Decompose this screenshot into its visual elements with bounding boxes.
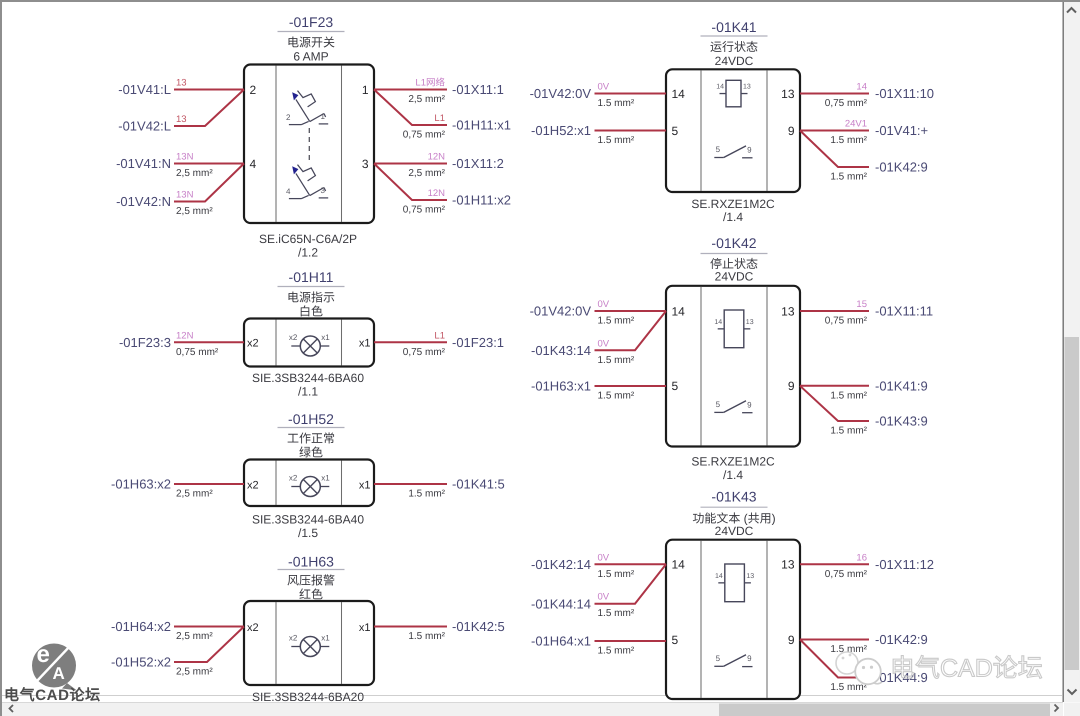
svg-text:1.5 mm²: 1.5 mm² [598, 355, 635, 366]
svg-text:/1.4: /1.4 [723, 210, 743, 224]
svg-text:-01V42:N: -01V42:N [116, 194, 171, 209]
svg-text:5: 5 [672, 124, 679, 138]
svg-text:-01K42:14: -01K42:14 [531, 557, 591, 572]
svg-text:-01H11: -01H11 [289, 269, 334, 285]
svg-text:绿色: 绿色 [299, 446, 323, 460]
svg-text:-01V41:N: -01V41:N [116, 156, 171, 171]
svg-text:13: 13 [176, 78, 187, 89]
svg-text:/1.4: /1.4 [723, 468, 743, 482]
svg-text:L1: L1 [434, 330, 445, 341]
svg-text:2,5 mm²: 2,5 mm² [176, 206, 213, 217]
svg-text:-01F23:1: -01F23:1 [452, 335, 504, 350]
svg-text:2,5 mm²: 2,5 mm² [176, 489, 213, 500]
svg-text:-01K43:14: -01K43:14 [531, 343, 591, 358]
svg-text:SE.RXZE1M2C: SE.RXZE1M2C [691, 455, 775, 469]
svg-text:1: 1 [321, 112, 326, 121]
svg-text:0V: 0V [598, 299, 610, 310]
svg-text:2,5 mm²: 2,5 mm² [408, 94, 445, 105]
svg-text:e: e [37, 641, 50, 668]
svg-text:L1: L1 [434, 113, 445, 124]
svg-text:x1: x1 [321, 333, 330, 342]
svg-text:-01H63:x2: -01H63:x2 [111, 477, 171, 492]
svg-text:-01V42:L: -01V42:L [118, 119, 171, 134]
svg-text:x2: x2 [289, 634, 298, 643]
svg-text:1.5 mm²: 1.5 mm² [830, 426, 867, 437]
svg-text:-01K43:9: -01K43:9 [875, 414, 928, 429]
svg-text:电气CAD论坛: 电气CAD论坛 [890, 655, 1043, 683]
svg-text:白色: 白色 [299, 305, 323, 319]
svg-text:-01F23:3: -01F23:3 [119, 335, 171, 350]
svg-text:0V: 0V [598, 338, 610, 349]
svg-text:6 AMP: 6 AMP [293, 50, 328, 64]
svg-text:工作正常: 工作正常 [287, 432, 335, 446]
svg-text:1.5 mm²: 1.5 mm² [598, 608, 635, 619]
svg-text:-01K42:9: -01K42:9 [875, 160, 928, 175]
svg-text:-01K43: -01K43 [711, 489, 756, 505]
svg-text:-01K41:9: -01K41:9 [875, 378, 928, 393]
svg-text:2,5 mm²: 2,5 mm² [176, 168, 213, 179]
svg-text:/1.5: /1.5 [298, 526, 318, 540]
svg-text:-01H52:x2: -01H52:x2 [111, 655, 171, 670]
svg-text:3: 3 [362, 157, 369, 171]
svg-text:0V: 0V [598, 552, 610, 563]
svg-text:15: 15 [856, 299, 867, 310]
svg-text:2,5 mm²: 2,5 mm² [176, 667, 213, 678]
svg-text:-01K42: -01K42 [711, 235, 756, 251]
svg-text:1.5 mm²: 1.5 mm² [598, 569, 635, 580]
svg-text:-01H64:x2: -01H64:x2 [111, 619, 171, 634]
svg-text:-01X11:12: -01X11:12 [875, 557, 934, 572]
svg-text:0,75 mm²: 0,75 mm² [403, 205, 446, 216]
svg-text:24V1: 24V1 [845, 119, 867, 130]
svg-text:13: 13 [746, 573, 754, 580]
svg-text:-01F23: -01F23 [289, 14, 334, 30]
svg-text:/1.1: /1.1 [298, 385, 318, 399]
svg-text:-01V42:0V: -01V42:0V [530, 304, 592, 319]
svg-text:x1: x1 [359, 338, 371, 350]
svg-text:-01V42:0V: -01V42:0V [530, 86, 592, 101]
svg-text:-01H11:x2: -01H11:x2 [452, 193, 511, 208]
svg-text:x2: x2 [289, 333, 298, 342]
svg-text:9: 9 [747, 400, 752, 409]
svg-text:5: 5 [672, 633, 679, 647]
svg-text:3: 3 [321, 186, 326, 195]
svg-text:13: 13 [781, 304, 795, 318]
svg-text:12N: 12N [428, 152, 446, 163]
svg-text:SE.RXZE1M2C: SE.RXZE1M2C [691, 197, 775, 211]
svg-text:红色: 红色 [299, 588, 323, 602]
svg-text:1.5 mm²: 1.5 mm² [408, 631, 445, 642]
svg-text:1: 1 [362, 83, 369, 97]
svg-text:-01X11:1: -01X11:1 [452, 82, 504, 97]
svg-text:4: 4 [250, 157, 257, 171]
svg-text:14: 14 [716, 84, 724, 91]
svg-text:14: 14 [714, 319, 722, 326]
svg-text:x2: x2 [247, 479, 259, 491]
svg-text:1.5 mm²: 1.5 mm² [598, 135, 635, 146]
svg-text:12N: 12N [428, 188, 446, 199]
svg-text:9: 9 [788, 379, 795, 393]
svg-text:SIE.3SB3244-6BA60: SIE.3SB3244-6BA60 [252, 371, 364, 385]
svg-text:0,75 mm²: 0,75 mm² [825, 569, 868, 580]
svg-text:x2: x2 [247, 338, 259, 350]
svg-text:2: 2 [250, 83, 257, 97]
svg-text:运行状态: 运行状态 [710, 40, 758, 54]
svg-text:5: 5 [716, 654, 721, 663]
svg-text:SIE.3SB3244-6BA40: SIE.3SB3244-6BA40 [252, 513, 364, 527]
svg-text:1.5 mm²: 1.5 mm² [598, 646, 635, 657]
svg-text:x1: x1 [359, 622, 371, 634]
svg-text:-01K42:9: -01K42:9 [875, 632, 928, 647]
svg-text:-01K41: -01K41 [711, 19, 756, 35]
svg-text:-01V41:L: -01V41:L [118, 82, 171, 97]
svg-text:-01V41:+: -01V41:+ [875, 123, 928, 138]
svg-text:风压报警: 风压报警 [287, 574, 335, 588]
svg-text:1.5 mm²: 1.5 mm² [830, 172, 867, 183]
svg-text:电源指示: 电源指示 [287, 291, 335, 305]
svg-text:9: 9 [788, 124, 795, 138]
svg-text:x1: x1 [321, 634, 330, 643]
svg-text:13: 13 [781, 558, 795, 572]
svg-text:0,75 mm²: 0,75 mm² [403, 130, 446, 141]
svg-text:SE.iC65N-C6A/2P: SE.iC65N-C6A/2P [259, 232, 357, 246]
svg-text:16: 16 [856, 552, 867, 563]
svg-text:-01H52:x1: -01H52:x1 [531, 123, 591, 138]
svg-text:0,75 mm²: 0,75 mm² [176, 347, 219, 358]
svg-text:5: 5 [672, 379, 679, 393]
svg-text:13N: 13N [176, 152, 194, 163]
svg-text:电气CAD论坛: 电气CAD论坛 [4, 687, 101, 704]
svg-text:-01H52: -01H52 [288, 411, 334, 427]
svg-text:-01H11:x1: -01H11:x1 [452, 118, 511, 133]
svg-text:0,75 mm²: 0,75 mm² [403, 347, 446, 358]
svg-text:14: 14 [856, 82, 867, 93]
svg-text:2,5 mm²: 2,5 mm² [408, 168, 445, 179]
svg-text:-01X11:2: -01X11:2 [452, 156, 504, 171]
svg-text:x1: x1 [359, 479, 371, 491]
svg-text:L1网络: L1网络 [415, 77, 445, 89]
svg-text:24VDC: 24VDC [715, 524, 754, 538]
svg-text:-01K41:5: -01K41:5 [452, 477, 505, 492]
svg-text:1.5 mm²: 1.5 mm² [598, 98, 635, 109]
svg-text:24VDC: 24VDC [715, 270, 754, 284]
svg-text:1.5 mm²: 1.5 mm² [830, 390, 867, 401]
svg-text:-01H63:x1: -01H63:x1 [531, 379, 591, 394]
svg-text:0V: 0V [598, 82, 610, 93]
svg-text:24VDC: 24VDC [715, 54, 754, 68]
svg-text:x2: x2 [289, 474, 298, 483]
svg-text:-01X11:11: -01X11:11 [875, 304, 933, 319]
svg-text:13: 13 [743, 84, 751, 91]
svg-text:x1: x1 [321, 474, 330, 483]
svg-text:1.5 mm²: 1.5 mm² [830, 135, 867, 146]
svg-text:13: 13 [781, 87, 795, 101]
svg-text:A: A [53, 664, 65, 683]
svg-text:0V: 0V [598, 592, 610, 603]
svg-text:5: 5 [716, 145, 721, 154]
svg-text:x2: x2 [247, 622, 259, 634]
svg-text:4: 4 [286, 187, 291, 196]
svg-text:14: 14 [715, 573, 723, 580]
svg-text:13: 13 [176, 114, 187, 125]
svg-text:0,75 mm²: 0,75 mm² [825, 98, 868, 109]
svg-text:-01X11:10: -01X11:10 [875, 86, 934, 101]
svg-text:电源开关: 电源开关 [287, 36, 335, 50]
svg-text:2: 2 [286, 113, 291, 122]
svg-text:9: 9 [747, 654, 752, 663]
svg-text:13: 13 [746, 319, 754, 326]
svg-text:14: 14 [672, 558, 686, 572]
svg-text:0,75 mm²: 0,75 mm² [825, 316, 868, 327]
svg-text:9: 9 [747, 145, 752, 154]
svg-text:2,5 mm²: 2,5 mm² [176, 631, 213, 642]
svg-text:14: 14 [672, 304, 686, 318]
svg-text:9: 9 [788, 633, 795, 647]
svg-text:/1.2: /1.2 [298, 246, 318, 260]
svg-text:-01H64:x1: -01H64:x1 [531, 634, 591, 649]
svg-text:13N: 13N [176, 190, 194, 201]
svg-text:SIE.3SB3244-6BA20: SIE.3SB3244-6BA20 [252, 690, 364, 704]
svg-text:-01K42:5: -01K42:5 [452, 619, 505, 634]
svg-text:-01H63: -01H63 [288, 554, 334, 570]
svg-text:1.5 mm²: 1.5 mm² [598, 391, 635, 402]
svg-text:14: 14 [672, 87, 686, 101]
svg-text:12N: 12N [176, 330, 194, 341]
svg-text:-01K44:14: -01K44:14 [531, 596, 591, 611]
svg-text:5: 5 [716, 400, 721, 409]
svg-text:1.5 mm²: 1.5 mm² [408, 489, 445, 500]
svg-text:1.5 mm²: 1.5 mm² [598, 316, 635, 327]
